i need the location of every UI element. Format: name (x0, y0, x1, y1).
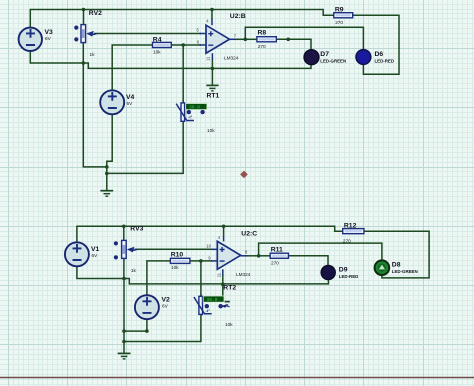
LED D9 (321, 266, 358, 280)
op-amp U2:B (197, 13, 246, 61)
svg-text:D9: D9 (339, 266, 348, 273)
svg-text:LM324: LM324 (236, 272, 251, 277)
wire op-amp output (234, 38, 245, 40)
svg-text:D6: D6 (375, 51, 384, 58)
node V4- join (105, 165, 109, 169)
node RT1 return join (105, 172, 109, 176)
resistor R11 (270, 247, 288, 266)
svg-text:LED-GREEN: LED-GREEN (320, 59, 346, 64)
source V4 (100, 90, 134, 114)
svg-text:R8: R8 (258, 30, 267, 37)
svg-text:4: 4 (206, 18, 209, 23)
svg-text:D7: D7 (320, 51, 329, 58)
svg-text:6V: 6V (45, 36, 52, 41)
resistor R8 (257, 30, 276, 50)
wire R8 left (245, 38, 257, 40)
wire op-amp output (245, 255, 259, 257)
node RT2 return join (122, 340, 126, 344)
svg-text:RV3: RV3 (130, 225, 143, 232)
svg-text:6V: 6V (92, 253, 99, 258)
svg-text:270: 270 (258, 44, 266, 49)
cursor at RT2 button (221, 304, 229, 308)
node RV3 bottom / V1- (122, 277, 126, 281)
wire V+ rail bottom circuit (77, 226, 343, 242)
svg-text:U2:C: U2:C (241, 230, 257, 237)
svg-text:V3: V3 (45, 29, 54, 36)
source V2 (135, 295, 170, 319)
svg-text:R9: R9 (335, 7, 344, 14)
potentiometer RV3 (114, 225, 144, 272)
svg-text:10k: 10k (207, 128, 215, 133)
svg-text:11: 11 (206, 56, 211, 61)
resistor R10 (170, 251, 190, 270)
svg-text:270: 270 (335, 20, 343, 25)
svg-text:10k: 10k (171, 265, 179, 270)
wire pin4 down (223, 226, 225, 235)
svg-text:11: 11 (216, 272, 221, 277)
node after R8 (286, 38, 290, 42)
wire R10 left to V2 top (147, 261, 171, 295)
RT1 value display (185, 103, 207, 114)
resistor R9 (334, 7, 353, 26)
ground bottom main (118, 342, 131, 359)
ground top main (100, 191, 113, 197)
wire R4 right to op-amp minus (171, 44, 201, 46)
wire RT2 return (124, 315, 201, 342)
wire V3 bottom (30, 51, 83, 63)
ground under U2:C (mostly hidden by RT2 display) (223, 284, 230, 301)
sheet border bottom line (0, 377, 474, 379)
wire ground rail top circuit (83, 63, 311, 68)
thermistor RT1 (176, 100, 215, 133)
svg-text:LED-GREEN: LED-GREEN (392, 269, 418, 274)
op-amp U2:C (206, 230, 257, 277)
svg-text:-t°: -t° (188, 115, 193, 120)
wire D8 loop to R12 (364, 231, 429, 278)
wire output up to D8 branch (259, 243, 382, 261)
node U2:B pin4 (210, 8, 214, 12)
potentiometer RV2 (74, 10, 102, 57)
wire RV2 bottom (82, 43, 84, 63)
wire V2 bottom (124, 320, 147, 332)
svg-text:30.0: 30.0 (189, 104, 200, 110)
wire RT1 top (182, 45, 184, 103)
wire pin11 to rail (222, 275, 224, 284)
svg-text:LM324: LM324 (224, 55, 239, 60)
svg-text:R11: R11 (271, 247, 283, 254)
wire R8 right to D7 (276, 39, 311, 49)
wire R10 right to op-amp minus (190, 260, 212, 262)
RT2 value display (203, 296, 230, 309)
svg-text:7: 7 (234, 33, 237, 38)
wire V1 bottom (77, 266, 124, 278)
wire V+ rail top (30, 10, 334, 28)
wire output up to D6 branch (245, 27, 363, 50)
resistor R4 (153, 36, 172, 54)
svg-text:R10: R10 (171, 251, 184, 258)
svg-text:10k: 10k (153, 49, 161, 54)
wire R11 left (259, 255, 271, 257)
svg-text:10: 10 (206, 244, 211, 249)
source V1 (65, 242, 100, 266)
wire pin11 to ground rail (211, 59, 213, 68)
svg-text:270: 270 (271, 261, 279, 266)
wire R4 left to V4 top (112, 45, 152, 90)
node RV2 bottom / V3- (82, 61, 86, 65)
thermistor RT2 (194, 294, 233, 327)
resistor R12 (343, 223, 364, 244)
wire R11 right to D9 (288, 256, 328, 266)
LED D7 (304, 50, 346, 65)
wire D6 loop to R9 (353, 15, 399, 74)
LED D6 (356, 50, 394, 65)
node output junction (244, 38, 248, 42)
svg-text:V1: V1 (91, 246, 100, 253)
origin marker diamond (240, 171, 248, 179)
svg-text:-t°: -t° (206, 308, 211, 313)
svg-text:V2: V2 (162, 297, 171, 304)
svg-text:RT2: RT2 (223, 284, 236, 291)
ground under U2:B (206, 68, 218, 91)
node pin11/rail (221, 282, 225, 286)
svg-text:30.0: 30.0 (207, 297, 218, 303)
wire RV3 return down (123, 279, 125, 342)
svg-text:R12: R12 (344, 223, 357, 230)
node RV3 top (122, 225, 126, 229)
svg-text:6V: 6V (127, 101, 134, 106)
wire ground rail bottom circuit (124, 279, 328, 284)
node V2- (145, 329, 149, 333)
svg-text:10k: 10k (225, 322, 233, 327)
node R10/RT2 (199, 259, 203, 263)
source V3 (19, 28, 53, 51)
svg-text:1k: 1k (131, 268, 137, 273)
svg-text:D8: D8 (392, 261, 401, 268)
node RV2 top (82, 8, 86, 12)
wire RT2 top (200, 261, 202, 296)
svg-text:RV2: RV2 (89, 10, 102, 17)
wire RV3 top stub (123, 226, 125, 240)
node pin11/gnd (211, 67, 215, 71)
svg-text:RT1: RT1 (207, 93, 220, 100)
svg-text:270: 270 (343, 239, 351, 244)
svg-text:LED-RED: LED-RED (375, 59, 395, 64)
wire RV2 top stub (83, 10, 85, 25)
node R4/RT1 (181, 43, 185, 47)
wire pin4 down (211, 10, 213, 20)
svg-text:1k: 1k (90, 52, 96, 57)
svg-text:6V: 6V (162, 304, 169, 309)
svg-text:U2:B: U2:B (230, 13, 246, 20)
wire V4 bottom jog (107, 114, 112, 190)
svg-text:LED-RED: LED-RED (339, 274, 359, 279)
node join left (122, 329, 126, 333)
node output junction (257, 254, 261, 258)
wire RV3 wiper to op-amp plus (135, 248, 213, 250)
svg-text:V4: V4 (126, 94, 135, 101)
wire RV3 bottom (123, 258, 125, 278)
wire RV2 return down (83, 63, 107, 167)
wire RT1 return (107, 121, 183, 173)
LED D8 (lit green) (375, 260, 418, 275)
wire RV2 wiper to op-amp plus (94, 33, 201, 35)
svg-text:R4: R4 (153, 36, 162, 43)
node U2:C pin4 (222, 225, 226, 229)
